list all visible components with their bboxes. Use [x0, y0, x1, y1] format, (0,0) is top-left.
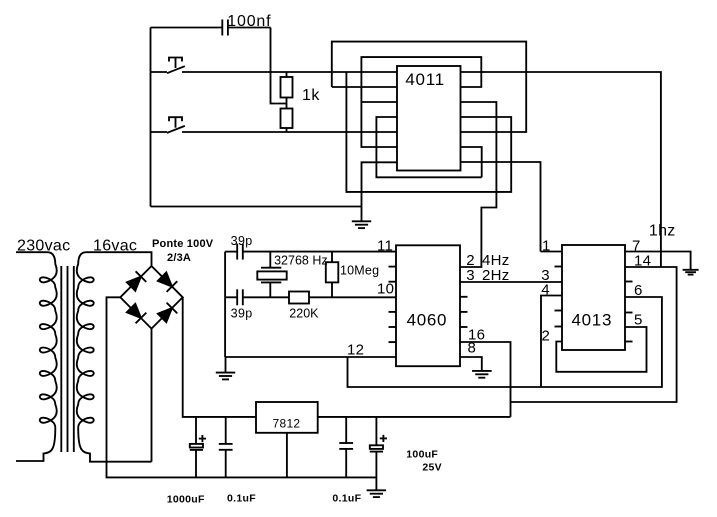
diode D3 (left node to bottom node)	[127, 304, 147, 324]
wire: 16vac to bridge top node	[138, 252, 152, 266]
IC U2 4060 body	[396, 245, 460, 366]
wire: 4060 pin 16 down to +12V	[460, 342, 511, 417]
wire: 39p to 220K	[243, 296, 289, 298]
wire: 4060 pin 12 ground wire	[225, 356, 396, 358]
transformer core	[61, 266, 74, 452]
wire: 7812 ground pin	[286, 433, 288, 478]
capacitor 100nf	[222, 20, 228, 36]
pin stub 4060 left y=266.6	[389, 266, 397, 268]
svg-text:1k: 1k	[302, 87, 320, 104]
svg-text:100uF: 100uF	[406, 449, 438, 461]
wire: 4011 pin R1 to 1hz line / 4013 pin 14	[461, 72, 661, 267]
pin stub 4013 right y=281.5	[625, 281, 633, 283]
capacitor C 39p (bottom)	[237, 289, 243, 305]
wire: 4013 pin 4 down to ground net	[541, 296, 562, 388]
svg-text:32768 Hz: 32768 Hz	[274, 254, 328, 268]
switch S2 (pushbutton)	[167, 117, 185, 133]
diode D4 (bottom node to right node)	[158, 303, 178, 323]
pin stub 4060 right y=327	[460, 326, 468, 328]
bridge rectifier diamond	[120, 266, 182, 329]
pin stub 4013 right y=312.5	[625, 312, 633, 314]
wire: 4013 pin 6 to ground net	[348, 297, 662, 387]
pin stub 4060 right y=311.9	[460, 311, 468, 313]
wire: 4013 pin 2 loop to pin 5	[556, 327, 646, 372]
wire: bottom of left loop to 4011 ground stem	[151, 206, 362, 208]
wire: 7812 output +12V rail	[318, 416, 511, 418]
capacitor C 0.1uF (second)	[339, 417, 353, 478]
wire: 4011 pin L3	[361, 101, 397, 103]
svg-text:0.1uF: 0.1uF	[227, 493, 256, 505]
capacitor C 0.1uF (first)	[219, 417, 233, 478]
svg-text:2/3A: 2/3A	[167, 252, 191, 264]
svg-text:1000uF: 1000uF	[167, 494, 205, 506]
ground (4013 pin 7)	[683, 270, 699, 275]
ground (4060 pin 8)	[472, 371, 492, 378]
voltage regulator U4 7812 body	[256, 402, 318, 433]
pin stub 4060 left y=311.9	[389, 311, 397, 313]
pin stub 4013 left y=266.5	[555, 266, 563, 268]
wire: bridge bottom node down (AC)	[151, 329, 153, 462]
ground (4011)	[352, 221, 371, 228]
wire: switch net branch to pin R4	[346, 72, 511, 192]
svg-text:0.1uF: 0.1uF	[332, 493, 361, 505]
wire: pin R7 to 4013 pin 1	[461, 162, 541, 252]
svg-text:39p: 39p	[231, 307, 253, 321]
wire: top from rail to 100nf	[151, 27, 223, 29]
pin stub 4060 right y=296.8	[460, 296, 468, 298]
wire: 100nf to corner	[228, 27, 271, 29]
svg-text:1hz: 1hz	[649, 223, 676, 240]
pin stub 4013 right y=341.5	[625, 341, 633, 343]
svg-text:7812: 7812	[273, 417, 301, 431]
wire: 4060 pin 8 to ground	[460, 357, 482, 370]
wire: S1 to 4011 pin (upper switch net)	[182, 71, 397, 73]
svg-text:4013: 4013	[572, 311, 613, 330]
resistor R 1k (upper half)	[281, 72, 293, 109]
wire: net rect pin L2 to pin R5	[332, 42, 526, 132]
transformer primary winding (230vac)	[16, 252, 57, 461]
capacitor C 39p (top)	[237, 244, 243, 260]
wire: pin R3 down to 4060 pin 2	[460, 102, 496, 267]
wire: to 39p top	[225, 251, 237, 253]
pin stub 4060 left y=342.1	[389, 341, 397, 343]
transformer secondary winding (16vac)	[77, 252, 152, 462]
svg-text:8: 8	[468, 340, 477, 357]
svg-text:10: 10	[377, 281, 394, 298]
switch S1 (pushbutton)	[167, 58, 185, 74]
svg-text:5: 5	[634, 312, 643, 329]
svg-text:4060: 4060	[407, 311, 448, 330]
wire: to 39p bottom	[225, 296, 237, 298]
diode D2 (top node to right node)	[158, 272, 178, 292]
wire: S2 to 4011 pin (lower switch net)	[182, 131, 397, 133]
resistor R 1k (lower half)	[281, 109, 293, 133]
wire: pin L7 down to ground	[362, 162, 398, 220]
ground (100uF)	[367, 490, 387, 497]
wire: 4011 pin L2	[332, 86, 397, 88]
capacitor C 100uF 25V (electrolytic)	[370, 417, 387, 490]
wire: rail to S1	[151, 71, 168, 73]
wire: 39p to 4060 pin 11	[243, 251, 396, 253]
svg-text:12: 12	[347, 342, 364, 359]
pin stub 4013 left y=310.5	[555, 310, 563, 312]
ground stem (oscillator)	[225, 357, 227, 372]
wire: bridge positive node to 7812 input	[183, 297, 256, 417]
resistor R 220K	[289, 292, 309, 304]
crystal X1 32768 Hz	[257, 252, 286, 298]
wire: pin R6 down join	[461, 147, 482, 177]
wire: pin L4 wrap below IC	[376, 117, 481, 177]
pin stub 4060 left y=327	[389, 326, 397, 328]
svg-text:39p: 39p	[231, 234, 253, 248]
wire: oscillator left vertical	[224, 252, 226, 357]
pin stub 4013 left y=326.5	[555, 326, 563, 328]
wire: net pin L6 up-over to pin R2	[361, 57, 481, 147]
wire: rail to S2	[151, 131, 168, 133]
wire: 220K to 4060 pin 10	[309, 296, 396, 298]
IC U3 4013 body	[562, 245, 625, 350]
pin stub 4060 left y=281.7	[389, 281, 397, 283]
svg-text:2: 2	[542, 328, 551, 345]
diode D1 (left node to top node)	[127, 271, 147, 291]
svg-text:4011: 4011	[405, 70, 444, 89]
op-amp / IC U1 4011 body	[397, 66, 461, 171]
svg-text:Ponte 100V: Ponte 100V	[152, 238, 214, 250]
wire: left vertical rail from 100nf loop	[150, 28, 152, 207]
svg-text:10Meg: 10Meg	[340, 264, 379, 278]
capacitor C 1000uF (electrolytic)	[190, 417, 206, 478]
wire: into 4013 pin 1	[541, 251, 563, 253]
wire: 4013 pin 14 to +12V rail	[511, 267, 677, 402]
ground (oscillator)	[216, 373, 235, 380]
svg-text:11: 11	[377, 238, 393, 255]
wire: 4060 pin 3 (2Hz) to 4013 pin 3	[460, 281, 562, 283]
resistor R 10Meg	[326, 252, 339, 298]
wire: bridge negative node to 0V rail	[107, 297, 377, 477]
wire: down to midpoint of 1k resistors	[271, 28, 287, 104]
svg-text:220K: 220K	[289, 307, 319, 321]
wire: 4013 pin 7 to ground	[625, 252, 691, 270]
svg-text:25V: 25V	[422, 462, 442, 474]
